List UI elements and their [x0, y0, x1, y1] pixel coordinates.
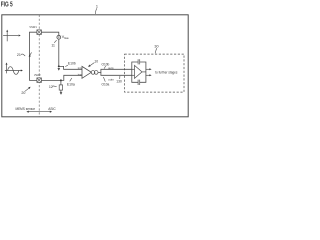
svg-text:outn: outn — [108, 78, 114, 82]
svg-text:10: 10 — [94, 60, 98, 64]
svg-text:30: 30 — [154, 45, 158, 49]
svg-text:O10a: O10a — [102, 83, 110, 87]
svg-text:VSW1: VSW1 — [29, 26, 37, 29]
svg-text:E10b: E10b — [68, 62, 76, 66]
svg-text:inn: inn — [78, 66, 82, 70]
svg-text:inp: inp — [78, 73, 82, 77]
svg-text:130: 130 — [116, 80, 122, 84]
svg-text:12: 12 — [49, 85, 53, 89]
svg-text:11: 11 — [51, 43, 55, 47]
svg-text:1: 1 — [96, 5, 98, 9]
svg-text:21: 21 — [17, 53, 21, 57]
svg-text:outp: outp — [108, 66, 114, 70]
svg-text:VSW2: VSW2 — [34, 75, 41, 77]
svg-text:ASIC: ASIC — [48, 107, 56, 111]
svg-text:to further stages: to further stages — [155, 71, 177, 75]
svg-text:E10a: E10a — [67, 83, 75, 87]
svg-text:MEMS sensor: MEMS sensor — [16, 107, 36, 111]
svg-text:20: 20 — [21, 91, 25, 95]
svg-text:FIG 5: FIG 5 — [1, 0, 13, 9]
